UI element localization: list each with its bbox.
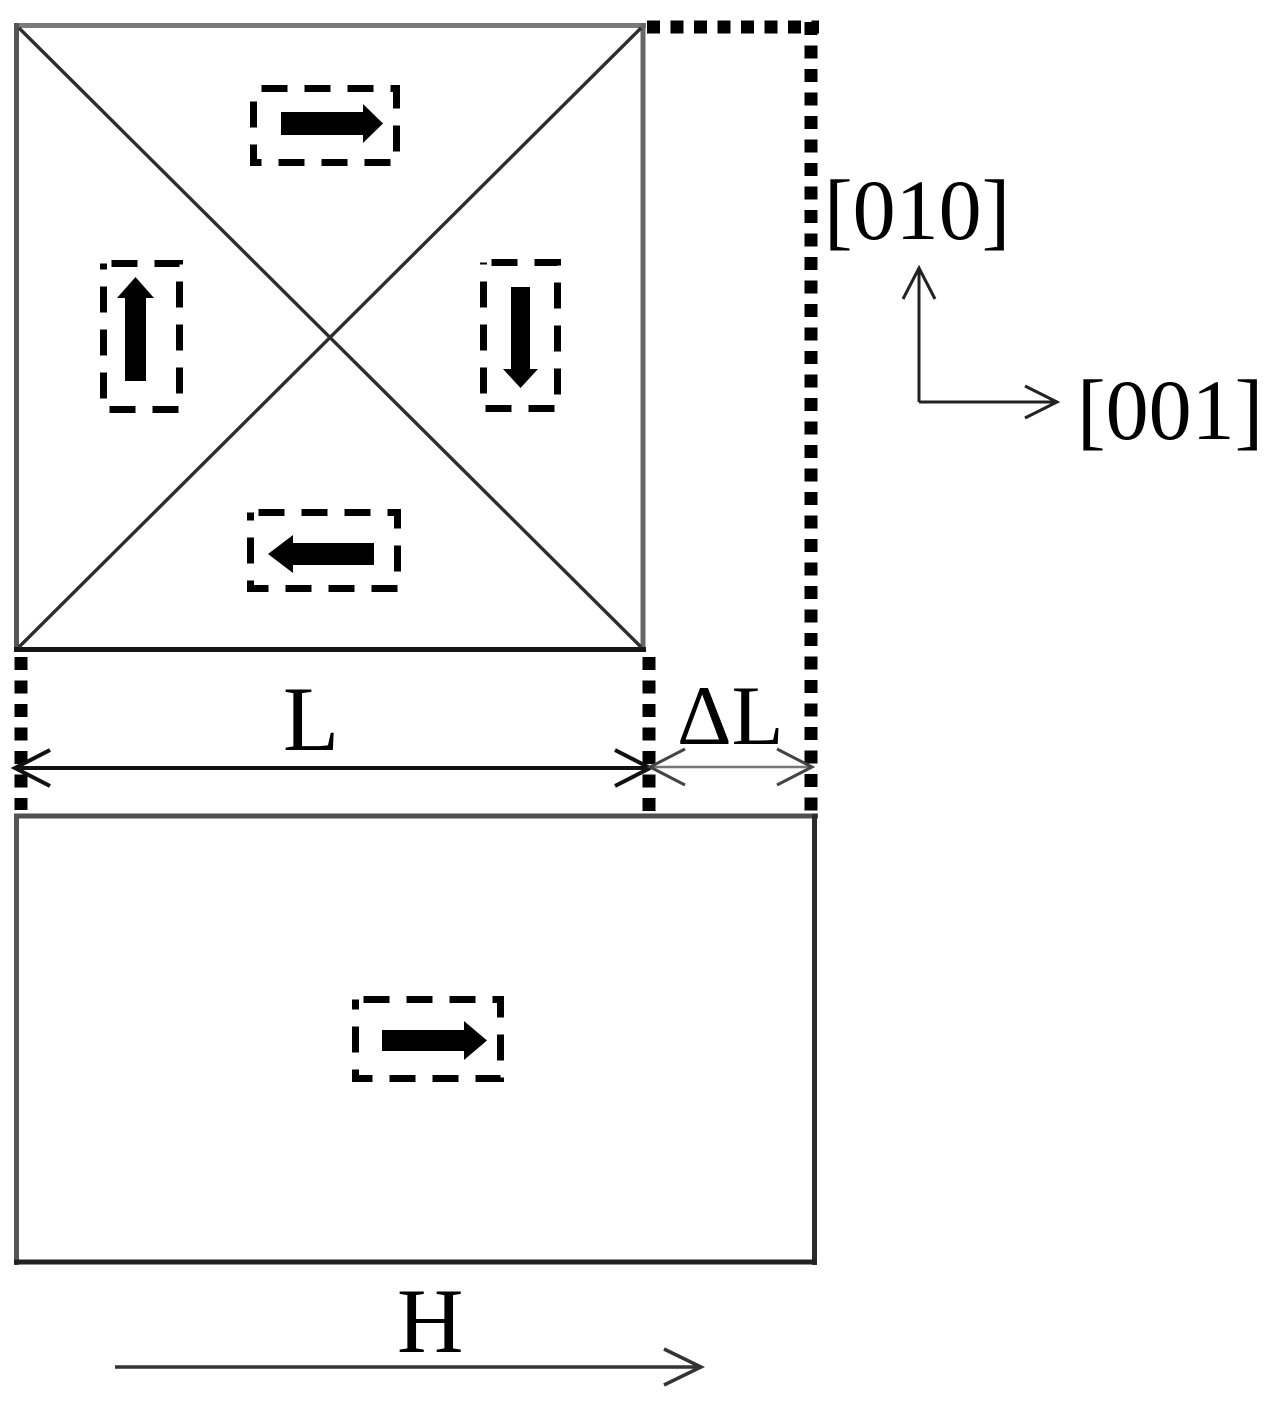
svg-text:L: L: [283, 668, 339, 770]
svg-text:ΔL: ΔL: [677, 669, 784, 763]
svg-text:H: H: [397, 1270, 463, 1372]
svg-text:[010]: [010]: [824, 162, 1010, 258]
svg-text:[001]: [001]: [1077, 362, 1263, 458]
